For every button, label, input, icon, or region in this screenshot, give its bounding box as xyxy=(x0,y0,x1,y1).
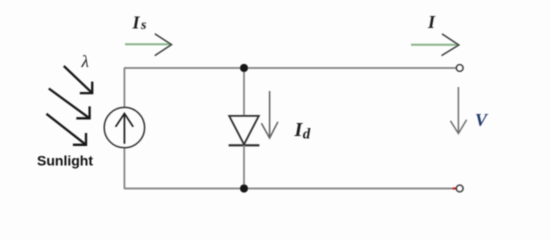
current source arrow (up) xyxy=(116,114,134,144)
svg-text:I: I xyxy=(427,12,436,32)
wire bottom horizontal xyxy=(124,188,453,190)
arrow I (current flow right) xyxy=(411,34,459,56)
wire diode branch lower xyxy=(243,145,245,188)
sunlight ray arrow 1 xyxy=(64,66,92,93)
terminal bottom (open circle) xyxy=(456,185,463,192)
arrow Is (current flow right) xyxy=(125,34,172,56)
arrow Id (diode current, down) xyxy=(261,91,278,138)
sunlight ray arrow 2 xyxy=(49,89,90,119)
diode D (triangle) xyxy=(229,116,259,144)
current source circle xyxy=(104,107,144,147)
wire left branch upper xyxy=(123,68,125,108)
svg-text:V: V xyxy=(475,110,489,130)
wire left branch lower xyxy=(123,148,125,189)
terminal top (open circle) xyxy=(456,65,463,72)
sunlight ray arrow 3 xyxy=(46,114,86,145)
wire top horizontal xyxy=(124,67,457,69)
node junction top xyxy=(240,64,248,72)
arrow V (voltage, down) xyxy=(450,87,466,134)
diode cathode bar xyxy=(229,144,260,146)
svg-text:λ: λ xyxy=(81,52,89,71)
wire diode branch upper xyxy=(243,68,245,116)
node junction bottom xyxy=(240,184,248,192)
svg-text:Sunlight: Sunlight xyxy=(37,153,93,169)
wire bottom red segment xyxy=(453,187,457,189)
